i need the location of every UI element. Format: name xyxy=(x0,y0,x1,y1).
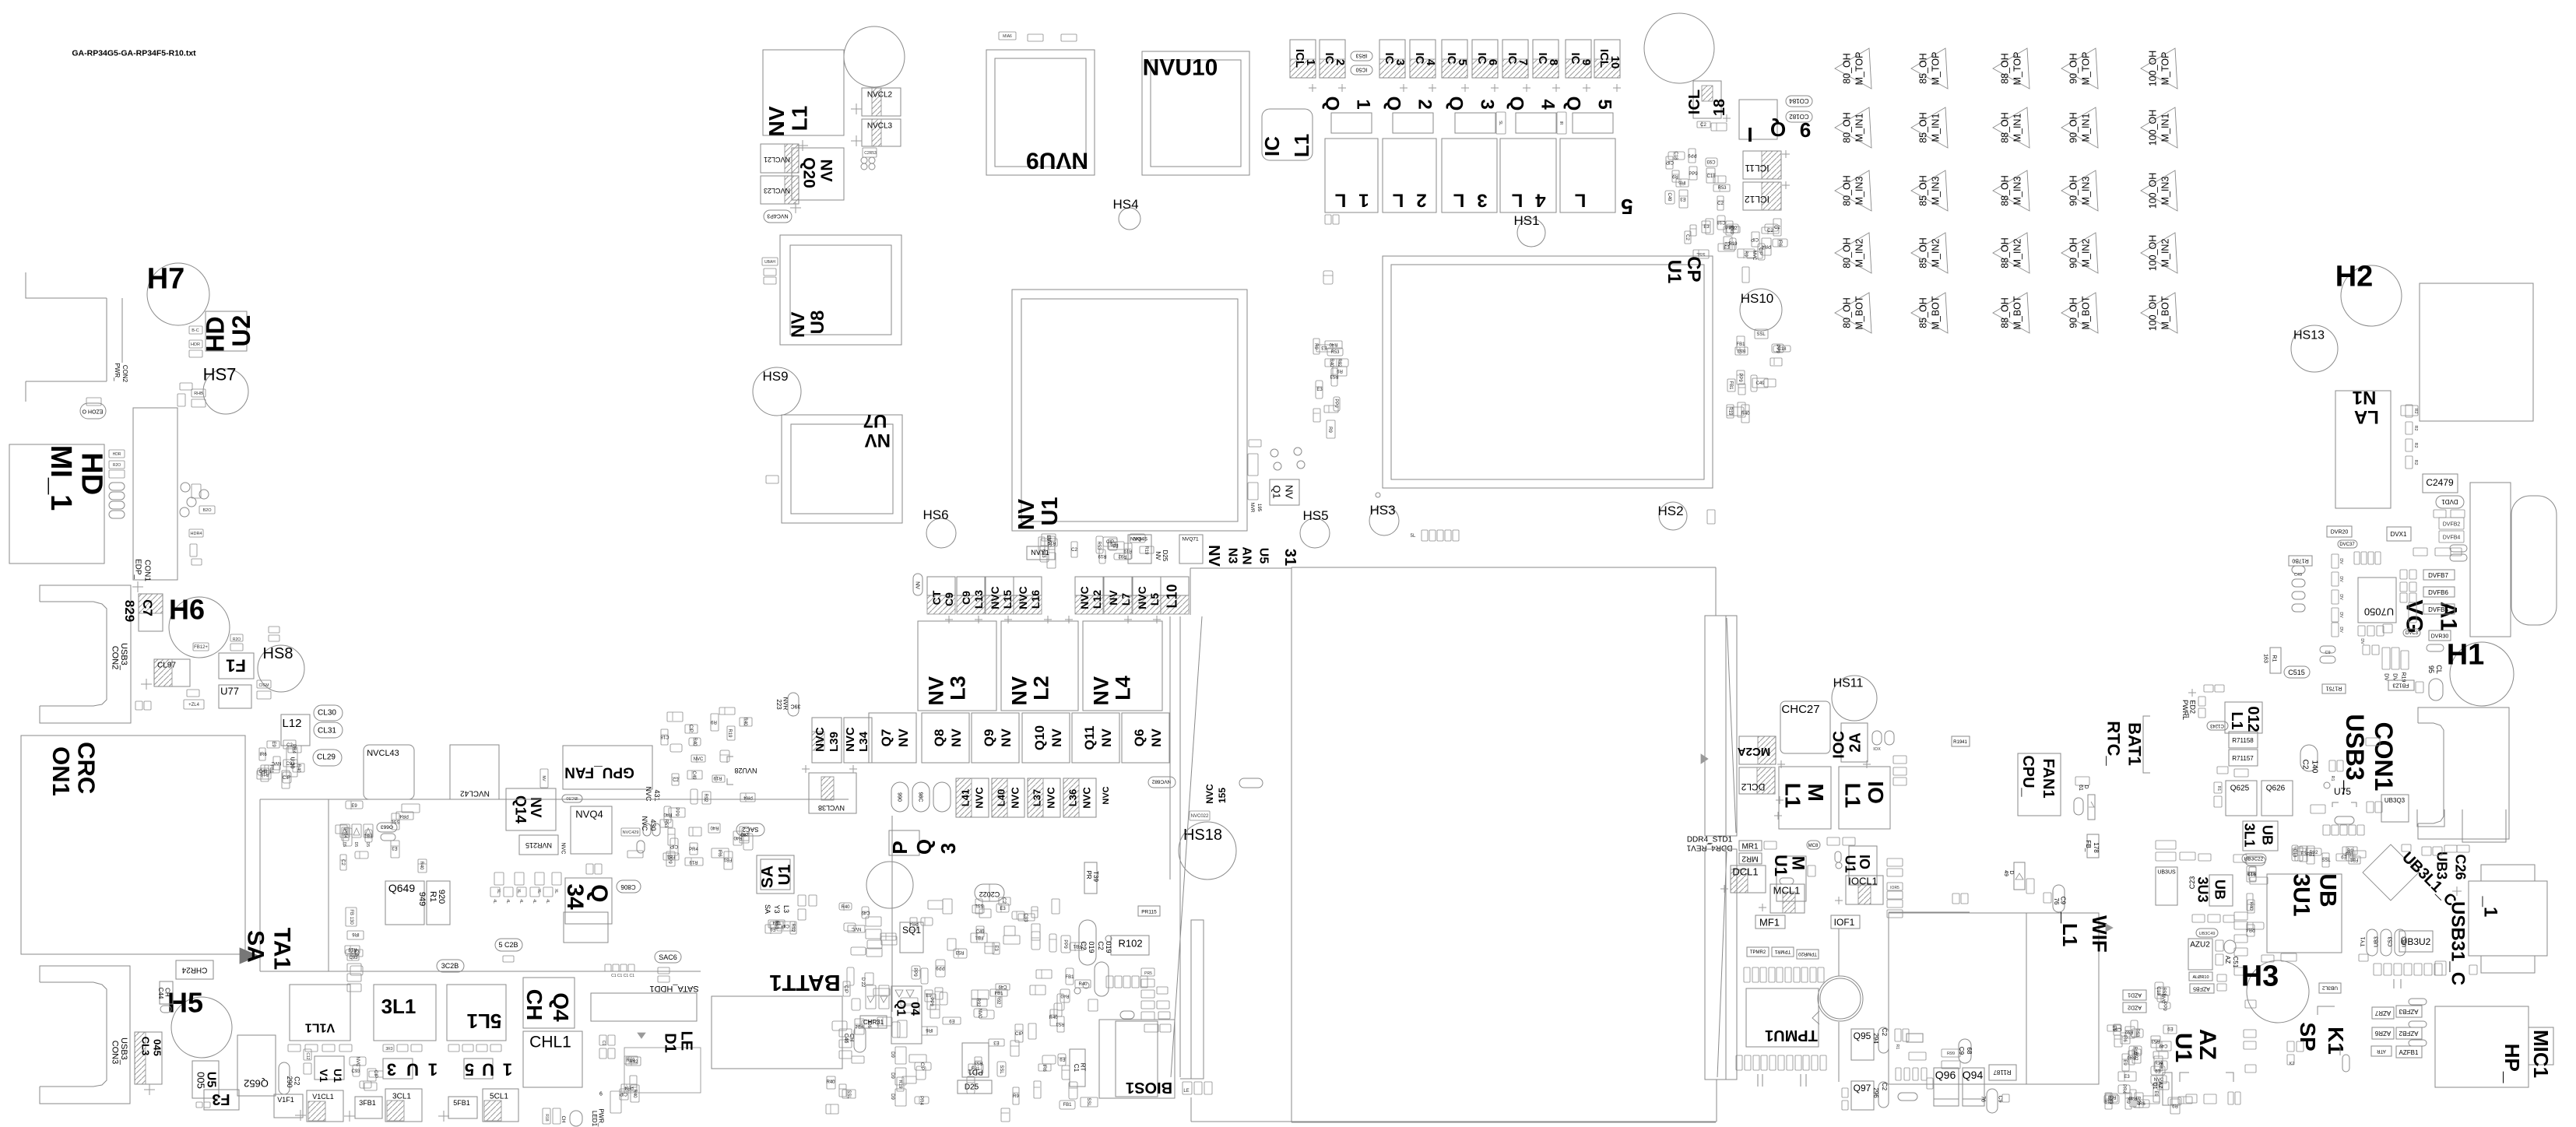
parts E3 RS xyxy=(586,864,593,874)
parts left of Q625 xyxy=(2214,782,2222,793)
svg-text:C2: C2 xyxy=(1724,240,1731,245)
svg-text:4L: 4L xyxy=(518,899,523,904)
svg-text:L13: L13 xyxy=(972,590,985,609)
chip UB3U2 xyxy=(2399,931,2433,952)
svg-text:SAC6: SAC6 xyxy=(659,953,677,961)
board edge top-left cutout xyxy=(26,272,107,298)
component cluster left edge H3 xyxy=(2247,900,2254,913)
capacitor V1CL1 xyxy=(307,1090,343,1122)
label HS18 xyxy=(1183,827,1222,844)
svg-text:NV: NV xyxy=(949,729,964,747)
svg-text:HS4: HS4 xyxy=(1112,197,1138,212)
capacitor NVCL42 xyxy=(450,745,499,799)
chip IO U1 xyxy=(1849,846,1877,885)
resistor CHR24 xyxy=(176,960,213,979)
fuse 3FB1 xyxy=(355,1097,382,1118)
component column BDVD xyxy=(2332,554,2339,568)
svg-text:O663: O663 xyxy=(381,824,393,830)
svg-text:E9: E9 xyxy=(2122,1059,2127,1066)
capacitor C2 296 xyxy=(1878,1082,1889,1108)
parts right of BIOS xyxy=(1183,1082,1192,1094)
label H7 xyxy=(147,262,185,295)
svg-text:M_IN2: M_IN2 xyxy=(2080,239,2091,268)
svg-text:HS18: HS18 xyxy=(1183,827,1222,844)
label HS7 xyxy=(203,365,237,384)
svg-text:100_OH: 100_OH xyxy=(2147,173,2158,209)
component cluster DVB xyxy=(2434,510,2446,518)
svg-text:IOX: IOX xyxy=(1873,747,1881,752)
svg-text:PR: PR xyxy=(1085,870,1092,879)
svg-text:C18: C18 xyxy=(1717,219,1726,224)
svg-text:PR4: PR4 xyxy=(689,848,698,852)
svg-text:R40: R40 xyxy=(733,835,743,840)
svg-text:U: U xyxy=(406,1059,419,1079)
transistor parts row mid xyxy=(494,872,504,885)
svg-text:NVC: NVC xyxy=(1136,586,1148,609)
svg-text:NV U7: NV U7 xyxy=(859,410,891,451)
capacitor MCL1 xyxy=(1770,884,1805,913)
svg-text:C53: C53 xyxy=(2388,936,2393,946)
resistor DVFB7 xyxy=(2423,570,2455,580)
svg-text:949: 949 xyxy=(417,892,427,906)
svg-text:UB3L2: UB3L2 xyxy=(2322,985,2338,991)
DDR region outline xyxy=(1291,567,1292,1122)
svg-text:R40: R40 xyxy=(692,737,697,746)
capacitor C9 68 xyxy=(1959,1039,1971,1063)
component cluster right of CPU upper xyxy=(1773,219,1781,236)
svg-text:AZR6: AZR6 xyxy=(2374,1030,2391,1037)
svg-text:HS10: HS10 xyxy=(1741,291,1774,306)
svg-text:M_BOT: M_BOT xyxy=(1930,296,1941,329)
svg-text:R92: R92 xyxy=(703,793,708,802)
capacitor NVCL2 xyxy=(862,88,901,116)
svg-text:990: 990 xyxy=(897,792,902,802)
svg-text:I: I xyxy=(1747,123,1752,146)
svg-text:TPMR1: TPMR1 xyxy=(1774,949,1791,953)
chip TPMU1 xyxy=(1746,988,1819,1047)
svg-text:DV: DV xyxy=(2339,594,2343,600)
component cluster AZ left xyxy=(2121,1033,2130,1044)
parts above UB3U5 xyxy=(2156,852,2176,861)
svg-text:NV Q20: NV Q20 xyxy=(800,157,835,188)
svg-text:PP9: PP9 xyxy=(912,967,917,977)
svg-text:R40: R40 xyxy=(841,905,850,910)
chip M U1 xyxy=(1776,856,1806,901)
board edge bottom middle xyxy=(1190,1097,1192,1122)
svg-text:178: 178 xyxy=(2093,842,2100,853)
hole H2 xyxy=(2341,265,2402,326)
hole HS5 xyxy=(1300,518,1330,548)
svg-text:PR4: PR4 xyxy=(1762,244,1771,248)
svg-text:HDR4: HDR4 xyxy=(191,532,202,536)
svg-text:4L: 4L xyxy=(532,899,536,904)
resistor R1941 xyxy=(1952,736,1970,746)
svg-text:NVC: NVC xyxy=(1204,784,1215,804)
svg-text:Q97: Q97 xyxy=(1854,1083,1871,1094)
row of parts above batt line xyxy=(605,964,611,971)
svg-text:N3: N3 xyxy=(1225,548,1239,564)
svg-text:294: 294 xyxy=(1872,1033,1879,1044)
fiducial 90_OH M_IN3 xyxy=(2061,170,2098,211)
svg-text:C9: C9 xyxy=(2325,651,2330,655)
capacitor ICL 18 xyxy=(1693,81,1721,118)
svg-text:98C: 98C xyxy=(918,792,923,802)
resistor R102 xyxy=(1111,936,1149,955)
svg-text:3U3: 3U3 xyxy=(2195,876,2211,902)
row of parts under V1L1 xyxy=(288,1044,300,1052)
capacitor NVCL3 xyxy=(862,119,901,146)
svg-text:EDP_: EDP_ xyxy=(134,559,142,580)
capacitor MC2A xyxy=(1739,736,1776,764)
svg-text:E3: E3 xyxy=(993,1040,1000,1044)
svg-text:T39: T39 xyxy=(1092,871,1099,882)
part DVAD xyxy=(2427,644,2444,651)
svg-text:RT C1: RT C1 xyxy=(1073,1063,1086,1073)
svg-text:PP9: PP9 xyxy=(1334,398,1338,408)
fiducial 80_OH M_BOT xyxy=(1835,293,1871,333)
svg-text:R1: R1 xyxy=(428,891,438,902)
svg-text:PP9: PP9 xyxy=(1775,344,1780,353)
svg-text:CO184: CO184 xyxy=(1789,97,1809,104)
fiducial 85_OH M_BOT xyxy=(1911,293,1948,333)
chip U5 005 xyxy=(192,1061,219,1098)
BIOS chip BIOS1 xyxy=(1099,1020,1175,1098)
svg-text:C51: C51 xyxy=(2232,957,2239,968)
labels NVC L39 L34 xyxy=(812,718,842,763)
svg-text:HS1: HS1 xyxy=(1513,213,1539,228)
wire IOF1 to battery xyxy=(1838,929,1840,976)
resistor AZFB2 xyxy=(2396,1027,2422,1039)
fiducial 85_OH M_TOP xyxy=(1911,48,1948,89)
connector EDP_CON1 xyxy=(133,408,177,580)
svg-text:R9: R9 xyxy=(2347,849,2353,854)
capacitor CL31 xyxy=(314,722,343,738)
svg-text:Q 34: Q 34 xyxy=(562,883,612,910)
svg-text:5L: 5L xyxy=(1411,534,1416,539)
box near NV L1 xyxy=(763,50,844,135)
svg-text:R92: R92 xyxy=(975,998,980,1007)
svg-text:SSL: SSL xyxy=(975,903,984,908)
svg-text:C2: C2 xyxy=(1774,226,1780,230)
svg-text:K1: K1 xyxy=(2324,1027,2348,1055)
svg-text:R19: R19 xyxy=(2247,871,2257,876)
component cluster left column xyxy=(257,771,271,779)
chip AZU2 xyxy=(2188,939,2212,970)
svg-text:Q8: Q8 xyxy=(932,729,947,747)
parts below SP xyxy=(2287,1041,2294,1052)
chip IOF1 xyxy=(1831,915,1860,929)
svg-text:2: 2 xyxy=(1416,190,1426,211)
svg-text:D 49: D 49 xyxy=(2003,870,2014,876)
capacitor DCL1 xyxy=(1731,865,1766,893)
part FB 178 xyxy=(2087,834,2099,858)
hole unlabeled mid xyxy=(866,862,913,908)
svg-text:NVC: NVC xyxy=(1046,787,1057,809)
svg-text:CIP: CIP xyxy=(620,1091,627,1096)
connector CRC ON1 xyxy=(21,736,245,954)
svg-text:C9: C9 xyxy=(960,591,972,605)
part UB3C22 xyxy=(2242,854,2266,863)
svg-text:E3: E3 xyxy=(1000,907,1006,911)
svg-text:R92: R92 xyxy=(2124,1029,2134,1034)
parts 3R3 row xyxy=(383,1044,394,1052)
parts top row DV xyxy=(2354,552,2360,564)
svg-text:NVCL38: NVCL38 xyxy=(818,804,845,812)
RTC battery BAT1 xyxy=(1818,976,1863,1021)
resistor R1 949 920 xyxy=(427,881,450,925)
svg-text:DCL2: DCL2 xyxy=(1741,781,1765,792)
svg-text:UB3C49: UB3C49 xyxy=(2199,932,2216,936)
svg-text:TPMU1: TPMU1 xyxy=(1765,1027,1818,1044)
svg-text:ALØR10: ALØR10 xyxy=(2192,975,2209,980)
label NVC 430 xyxy=(641,816,648,831)
svg-text:M_IN1: M_IN1 xyxy=(1930,114,1941,142)
svg-text:R1941: R1941 xyxy=(1953,740,1967,745)
resistors AZD1 AZD2 xyxy=(2123,990,2146,1000)
svg-text:FAN1: FAN1 xyxy=(2040,758,2057,798)
svg-text:CL31: CL31 xyxy=(318,727,336,736)
power stage input caps row ICL1-ICL10 xyxy=(1290,40,1316,78)
hole H3 xyxy=(2247,960,2309,1023)
parts NVR223 398 NVC xyxy=(775,697,789,711)
svg-text:ICL: ICL xyxy=(1686,90,1703,114)
svg-text:NVC: NVC xyxy=(694,757,704,762)
svg-text:C2: C2 xyxy=(673,778,679,783)
svg-text:USB3_ CON3: USB3_ CON3 xyxy=(110,1037,128,1067)
svg-text:M_IN2: M_IN2 xyxy=(2160,239,2170,268)
svg-text:V1L1: V1L1 xyxy=(305,1020,335,1034)
svg-text:R53: R53 xyxy=(974,1060,983,1065)
transistor Q1 NV xyxy=(1270,479,1299,505)
svg-text:155: 155 xyxy=(1217,788,1228,803)
svg-text:U5: U5 xyxy=(204,1072,217,1088)
svg-text:DV: DV xyxy=(2339,576,2343,582)
svg-text:4L: 4L xyxy=(505,899,510,904)
svg-text:U1: U1 xyxy=(332,1069,344,1083)
svg-text:SSL: SSL xyxy=(1756,332,1766,337)
label HS9 xyxy=(762,369,788,384)
svg-text:NVU9: NVU9 xyxy=(1026,148,1088,174)
resistor DVFB6 xyxy=(2423,587,2455,597)
inductor NV L3 xyxy=(918,621,996,711)
svg-text:1: 1 xyxy=(1353,99,1374,109)
chip UB 3U3 xyxy=(2209,875,2233,906)
NV phase transistors Q7-Q6 xyxy=(869,713,916,763)
svg-text:R40: R40 xyxy=(663,812,673,816)
svg-text:E3: E3 xyxy=(1680,196,1686,201)
svg-text:NVCL21: NVCL21 xyxy=(764,156,790,163)
TPM pin row lower xyxy=(1736,1055,1742,1070)
capacitor 5C2B xyxy=(495,939,522,951)
svg-text:HDR: HDR xyxy=(191,342,200,347)
capacitor NVCL43 xyxy=(364,745,414,799)
svg-text:IOR5: IOR5 xyxy=(1890,886,1899,890)
svg-text:R40: R40 xyxy=(632,1089,637,1098)
svg-text:DVFB6: DVFB6 xyxy=(2428,589,2448,596)
svg-text:M_IN3: M_IN3 xyxy=(2012,177,2022,205)
svg-text:Q11: Q11 xyxy=(1082,725,1097,750)
parts between Q97 Q96 xyxy=(1896,1068,1901,1080)
svg-text:C12: C12 xyxy=(305,1052,310,1059)
fuse V1F1 xyxy=(274,1094,303,1118)
diode row D50 D56 D58 xyxy=(340,824,350,837)
hole unlabeled right of power row xyxy=(1644,13,1714,83)
svg-text:R53: R53 xyxy=(2107,1094,2117,1099)
component cluster left of CPU xyxy=(1316,345,1333,352)
svg-text:76: 76 xyxy=(1980,1096,1986,1102)
fiducial 88_OH M_IN3 xyxy=(1993,170,2030,211)
part DVC3 xyxy=(2403,629,2420,637)
parts right of U77 xyxy=(257,680,271,688)
label HS8 xyxy=(263,645,293,662)
label HS1 xyxy=(1513,213,1539,228)
label HS4 xyxy=(1112,197,1138,212)
hole top-left unlabeled xyxy=(844,26,905,87)
parts right of GPU xyxy=(1248,454,1258,476)
svg-text:R40: R40 xyxy=(826,1080,835,1085)
svg-text:NVC: NVC xyxy=(974,787,986,809)
capacitor CH C46 xyxy=(854,1026,866,1052)
transistor Q652 xyxy=(237,1035,276,1096)
svg-text:ICL12: ICL12 xyxy=(1745,194,1769,205)
connector BATT1 xyxy=(769,970,840,995)
svg-text:D25: D25 xyxy=(1161,550,1169,562)
chip AZ U1 xyxy=(2170,1029,2220,1066)
svg-text:NVC: NVC xyxy=(1752,251,1756,261)
svg-text:C49: C49 xyxy=(975,930,985,935)
svg-text:C93: C93 xyxy=(351,1069,360,1074)
svg-text:Q: Q xyxy=(1322,97,1343,111)
label P Q 3 xyxy=(889,830,919,855)
component cluster left of ICL11 xyxy=(1668,152,1685,160)
svg-text:C2: C2 xyxy=(1685,234,1689,240)
svg-text:5FB1: 5FB1 xyxy=(453,1099,470,1107)
svg-text:FB1: FB1 xyxy=(666,854,676,858)
svg-text:XL: XL xyxy=(536,889,541,894)
label PWR_CON2 xyxy=(114,363,121,381)
transistor Q626 xyxy=(2261,781,2293,816)
parts near CL97 xyxy=(187,690,199,697)
svg-text:CIP: CIP xyxy=(782,923,789,928)
svg-text:DVFB2: DVFB2 xyxy=(2443,521,2461,527)
component cluster right of EDP_CON1 xyxy=(181,483,190,492)
svg-text:HS11: HS11 xyxy=(1833,677,1864,690)
part R1 163 xyxy=(2270,648,2281,673)
chip NVC022 xyxy=(1190,811,1210,820)
title text GA-RP34G5-GA-RP34F5-R10.txt xyxy=(72,49,196,58)
svg-text:H1: H1 xyxy=(2447,638,2485,671)
svg-text:C9: C9 xyxy=(1998,1096,2003,1103)
bottom row parts AZ area xyxy=(2143,1096,2160,1104)
parts right of AZ U1 xyxy=(2244,1030,2256,1037)
svg-text:UB3: UB3 xyxy=(2402,936,2407,947)
svg-text:HS9: HS9 xyxy=(762,369,788,384)
svg-text:4L: 4L xyxy=(545,899,550,904)
svg-text:HP_: HP_ xyxy=(2500,1044,2524,1083)
resistor AZFB3 xyxy=(2396,1006,2422,1017)
svg-text:C18: C18 xyxy=(1673,151,1678,160)
transistor Q625 xyxy=(2226,781,2257,816)
fiducial 90_OH M_TOP xyxy=(2061,48,2098,89)
svg-text:5: 5 xyxy=(465,1059,474,1079)
fiducial 100_OH M_TOP xyxy=(2141,48,2177,89)
transistor NV Q14 xyxy=(506,788,556,830)
part PC5 xyxy=(1120,1011,1134,1019)
svg-text:6: 6 xyxy=(599,1091,603,1097)
svg-text:D25: D25 xyxy=(965,1083,979,1092)
svg-text:D5: D5 xyxy=(342,842,346,848)
svg-text:9: 9 xyxy=(1800,118,1811,142)
svg-text:80_OH: 80_OH xyxy=(1841,53,1852,84)
chip U7050 xyxy=(2358,578,2396,623)
svg-text:NVC: NVC xyxy=(355,1057,360,1067)
parts IOR column xyxy=(1887,883,1903,890)
fiducial 80_OH M_IN3 xyxy=(1835,170,1871,211)
svg-text:2: 2 xyxy=(1415,99,1436,109)
svg-text:HS8: HS8 xyxy=(263,645,293,662)
svg-text:D5: D5 xyxy=(365,842,370,848)
svg-text:P: P xyxy=(888,841,912,854)
svg-text:R53: R53 xyxy=(663,819,668,828)
svg-text:UB: UB xyxy=(2212,879,2228,900)
svg-text:HS3: HS3 xyxy=(1369,503,1395,518)
svg-text:M_TOP: M_TOP xyxy=(2160,52,2170,86)
svg-text:IR6: IR6 xyxy=(259,753,267,757)
svg-text:BAT1: BAT1 xyxy=(2124,722,2144,766)
svg-text:R17B0: R17B0 xyxy=(2292,558,2309,563)
svg-text:Q: Q xyxy=(1506,97,1527,111)
svg-text:R19: R19 xyxy=(1727,406,1732,416)
svg-text:PR4: PR4 xyxy=(743,795,753,799)
svg-text:CIP: CIP xyxy=(843,985,848,993)
svg-text:5L1: 5L1 xyxy=(467,1009,502,1033)
svg-text:HDR: HDR xyxy=(113,452,121,457)
parts near UB3Q3 xyxy=(2367,802,2374,813)
label HS13 xyxy=(2293,329,2325,342)
svg-text:R1: R1 xyxy=(2272,655,2277,662)
part AZ C51 xyxy=(2224,940,2236,953)
label NVC 431 xyxy=(645,786,652,802)
power stage transistors Q1-Q5 xyxy=(1322,97,1343,111)
svg-text:NV: NV xyxy=(1154,551,1161,560)
svg-text:FB1: FB1 xyxy=(1063,1103,1072,1108)
svg-text:L34: L34 xyxy=(857,731,870,752)
svg-text:10: 10 xyxy=(1608,56,1622,69)
parts right of UB3U3 xyxy=(2234,912,2247,920)
resistor DVR30 xyxy=(2429,630,2451,641)
svg-text:H7: H7 xyxy=(147,262,185,295)
svg-text:FB12+: FB12+ xyxy=(194,645,208,650)
fiducial 100_OH M_IN2 xyxy=(2141,233,2177,273)
chip MF1 xyxy=(1755,915,1785,929)
svg-text:430: 430 xyxy=(649,819,657,830)
part DVC37 xyxy=(2338,540,2357,548)
pin1 dot CPU xyxy=(1376,493,1380,497)
svg-text:NVY1: NVY1 xyxy=(1031,549,1049,556)
svg-text:Q9: Q9 xyxy=(982,729,996,747)
svg-text:L15: L15 xyxy=(1001,590,1014,609)
svg-text:R19: R19 xyxy=(348,946,357,951)
labels SP K1 xyxy=(2296,1022,2320,1051)
svg-text:DV: DV xyxy=(2339,558,2343,564)
svg-text:04: 04 xyxy=(908,1002,921,1016)
svg-text:90_OH: 90_OH xyxy=(2068,297,2079,328)
svg-text:CIP: CIP xyxy=(688,725,693,732)
fiducial 90_OH M_IN1 xyxy=(2061,107,2098,148)
svg-text:U 30: U 30 xyxy=(290,757,295,769)
svg-text:829: 829 xyxy=(122,600,137,622)
svg-text:PR4: PR4 xyxy=(291,744,296,753)
